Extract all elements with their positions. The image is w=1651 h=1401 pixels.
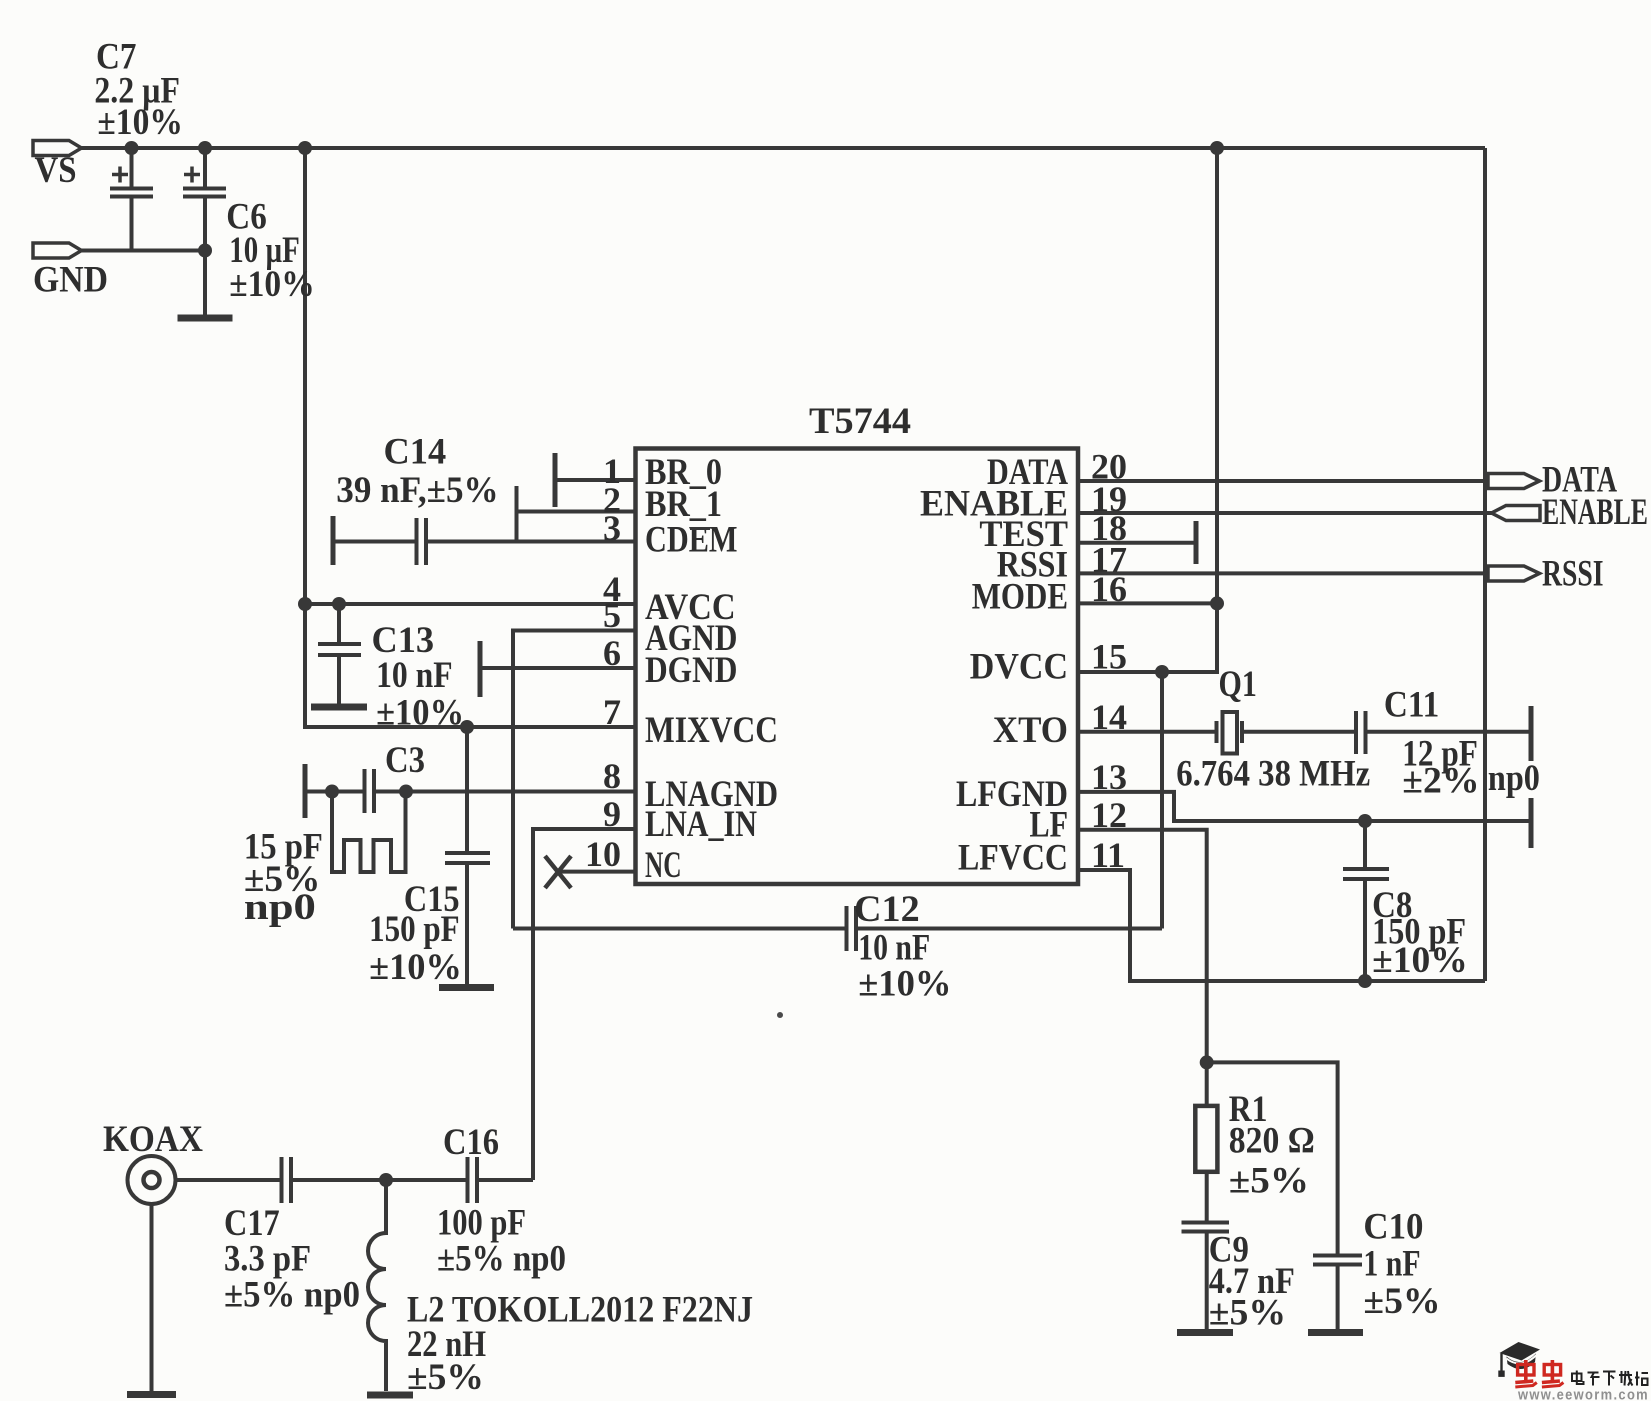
svg-text:39 nF,±5%: 39 nF,±5%	[336, 470, 498, 511]
terminal bar LFGND right	[1529, 798, 1534, 848]
capacitor C14 (39nF) on CDEM pin 3	[333, 540, 416, 544]
svg-text:RSSI: RSSI	[1542, 554, 1604, 595]
junction dot C3 left node	[325, 785, 339, 799]
wire C3 left	[305, 790, 364, 794]
wire BR_1 pin 2	[517, 510, 637, 514]
wire LFGND pin 13	[1078, 792, 1531, 821]
svg-text:C14: C14	[384, 432, 447, 473]
junction dot AVCC trunk	[298, 597, 312, 611]
wire DATA pin 20	[1078, 479, 1488, 483]
svg-text:ENABLE: ENABLE	[1542, 492, 1648, 533]
svg-text:15: 15	[1091, 637, 1127, 677]
svg-text:T5744: T5744	[809, 401, 911, 442]
svg-text:C16: C16	[443, 1122, 499, 1163]
ground bar C6	[178, 315, 233, 322]
svg-text:DVCC: DVCC	[970, 647, 1068, 688]
wire VS supply rail (top)	[82, 146, 1486, 150]
svg-text:11: 11	[1091, 835, 1125, 875]
svg-text:www.eeworm.com: www.eeworm.com	[1517, 1388, 1649, 1401]
junction dot C6 top	[198, 141, 212, 155]
capacitor C12 (10nF)	[845, 906, 849, 951]
wire R1 to C9	[1205, 1172, 1209, 1222]
wire right rail	[1483, 148, 1487, 981]
svg-text:820 Ω: 820 Ω	[1229, 1121, 1315, 1162]
capacitor C15 (150pF)	[465, 727, 469, 852]
ground bar C13	[311, 704, 367, 711]
wire DVCC pin 15 riser to rail	[1078, 148, 1217, 672]
capacitor C16 (100pF)	[466, 1157, 470, 1203]
junction dot DVCC branch	[1155, 665, 1169, 679]
IC U1 T5744 body	[636, 449, 1079, 885]
svg-text:±2%: ±2%	[1402, 761, 1479, 802]
ground bar C10	[1308, 1329, 1363, 1336]
junction dot C3 right node	[399, 785, 413, 799]
terminal bar DGND	[478, 641, 483, 697]
capacitor C13 (10nF)	[337, 604, 341, 644]
ink speck artifact	[777, 1012, 783, 1018]
svg-text:±5%: ±5%	[1229, 1161, 1309, 1202]
junction dot C13 top	[332, 597, 346, 611]
svg-text:Q1: Q1	[1219, 664, 1257, 705]
svg-text:LFVCC: LFVCC	[958, 838, 1068, 879]
svg-text:np0: np0	[1488, 758, 1540, 799]
junction dot C6/GND	[198, 244, 212, 258]
junction dot rail/MODE riser	[1210, 141, 1224, 155]
svg-text:3: 3	[603, 508, 621, 548]
svg-text:C3: C3	[385, 740, 425, 781]
terminal bar C3 left	[303, 764, 308, 818]
svg-text:XTO: XTO	[993, 710, 1068, 751]
wire LNAGND pin 8	[375, 790, 636, 794]
terminal bar BR_0	[553, 453, 558, 507]
svg-text:NC: NC	[645, 845, 682, 886]
wire LF pin 12 down to R1	[1078, 830, 1207, 1106]
watermark graduation cap	[1498, 1342, 1540, 1377]
terminal ENABLE	[1492, 506, 1541, 521]
terminal bar TEST	[1194, 521, 1199, 564]
svg-text:±5% np0: ±5% np0	[437, 1239, 566, 1280]
ground bar C9	[1177, 1329, 1233, 1336]
capacitor C3 (15pF)	[363, 769, 367, 813]
terminal RSSI	[1488, 566, 1540, 581]
svg-text:±10%: ±10%	[1372, 940, 1468, 981]
wire DVCC branch down to C12	[1160, 672, 1164, 929]
svg-text:10 nF: 10 nF	[858, 928, 930, 969]
svg-text:7: 7	[603, 692, 621, 732]
inductor L1 (square-loop) under C3	[332, 792, 406, 873]
wire AVCC trunk to MIXVCC pin 7	[305, 148, 636, 727]
svg-text:±10%: ±10%	[369, 947, 462, 988]
wire AVCC pin 4	[305, 602, 636, 606]
no-connect X on pin 10	[545, 856, 571, 888]
watermark site name characters	[1572, 1371, 1648, 1386]
wire MODE pin 16	[1078, 601, 1217, 605]
svg-text:±5% np0: ±5% np0	[224, 1275, 360, 1316]
svg-text:±5%: ±5%	[407, 1357, 484, 1398]
svg-text:±5%: ±5%	[1363, 1281, 1440, 1322]
svg-text:MODE: MODE	[972, 577, 1068, 618]
svg-text:16: 16	[1091, 569, 1127, 609]
svg-text:9: 9	[603, 794, 621, 834]
svg-text:10: 10	[585, 834, 621, 874]
svg-text:±10%: ±10%	[376, 693, 464, 734]
svg-text:C10: C10	[1363, 1207, 1423, 1248]
terminal DATA	[1488, 474, 1540, 489]
wire R1 top to C10 branch	[1207, 1062, 1338, 1256]
svg-text:CDEM: CDEM	[645, 520, 738, 561]
capacitor C11 (12pF)	[1354, 711, 1358, 754]
wire C17 to C16	[292, 1178, 468, 1182]
svg-text:±10%: ±10%	[97, 102, 182, 143]
svg-text:MIXVCC: MIXVCC	[645, 710, 778, 751]
svg-text:DGND: DGND	[645, 650, 738, 691]
svg-text:±10%: ±10%	[858, 964, 951, 1005]
wire BR_1 riser to C14 node	[515, 486, 519, 542]
wire C12 row left	[513, 927, 846, 931]
svg-text:GND: GND	[33, 260, 108, 301]
wire LNA_IN pin 9 down to input network	[533, 829, 636, 1180]
wire C16 to pin 9 riser	[478, 1178, 534, 1182]
svg-text:6: 6	[603, 633, 621, 673]
connector KOAX	[128, 1156, 176, 1204]
wire XTO pin 14	[1078, 730, 1215, 734]
junction dot C8 top	[1358, 814, 1372, 828]
svg-text:150 pF: 150 pF	[369, 909, 460, 950]
wire TEST pin 18	[1078, 541, 1196, 545]
wire BR_0 pin 1	[555, 478, 636, 482]
svg-text:10 nF: 10 nF	[376, 655, 453, 696]
wire C12 row right to DVCC branch	[856, 927, 1162, 931]
wire KOAX to C17	[176, 1178, 282, 1182]
svg-text:3.3 pF: 3.3 pF	[224, 1239, 311, 1280]
wire AGND pin 5 down to C12 row	[513, 631, 636, 929]
junction dot trunk top	[298, 141, 312, 155]
svg-text:LNA_IN: LNA_IN	[645, 804, 757, 845]
svg-text:8: 8	[603, 756, 621, 796]
wire CDEM pin 3	[427, 540, 637, 544]
svg-text:±10%: ±10%	[229, 264, 314, 305]
wire DGND pin 6	[480, 666, 636, 670]
junction dot C15/MIXVCC	[460, 720, 474, 734]
wire LFVCC pin 11 to rail bottom	[1078, 870, 1485, 981]
svg-text:±5%: ±5%	[1209, 1293, 1286, 1334]
terminal VS	[33, 141, 82, 156]
terminal bar C14 left	[331, 516, 336, 565]
svg-text:VS: VS	[35, 150, 77, 191]
wire NC pin 10 stub	[558, 870, 636, 874]
capacitor C10 (1nF)	[1313, 1254, 1362, 1258]
svg-text:14: 14	[1091, 697, 1127, 737]
svg-text:np0: np0	[244, 887, 316, 928]
capacitor C7 (2.2uF polarized)	[130, 148, 134, 189]
wire C11 right	[1366, 730, 1531, 734]
junction dot C8 bottom	[1358, 974, 1372, 988]
capacitor C17 (3.3pF)	[280, 1157, 284, 1203]
ground bar C15	[439, 984, 494, 991]
terminal bar C11 right	[1529, 706, 1534, 761]
resistor R1 (820 ohm)	[1195, 1106, 1217, 1172]
svg-text:13: 13	[1091, 757, 1127, 797]
terminal GND	[33, 243, 82, 258]
svg-text:5: 5	[603, 595, 621, 635]
inductor L2 (22nH)	[368, 1180, 386, 1391]
capacitor C6 (10uF polarized)	[203, 148, 207, 189]
svg-text:12: 12	[1091, 795, 1127, 835]
svg-text:6.764 38 MHz: 6.764 38 MHz	[1176, 754, 1370, 795]
junction dot C7 top	[125, 141, 139, 155]
junction dot antenna node	[379, 1173, 393, 1187]
svg-text:100 pF: 100 pF	[437, 1203, 526, 1244]
wire XTO to C11	[1244, 730, 1356, 734]
wire GND	[82, 249, 206, 253]
wire KOAX shield down	[150, 1204, 154, 1391]
overline on CDEM E	[690, 527, 710, 530]
capacitor C8 (150pF)	[1363, 821, 1367, 868]
svg-text:KOAX: KOAX	[103, 1119, 203, 1160]
watermark chongchong red characters	[1515, 1360, 1563, 1387]
wire ENABLE pin 19	[1078, 511, 1494, 515]
capacitor C9 (4.7nF)	[1182, 1221, 1230, 1225]
junction dot MODE	[1210, 596, 1224, 610]
wire RSSI pin 17	[1078, 571, 1488, 575]
svg-text:C11: C11	[1384, 685, 1439, 726]
svg-text:C12: C12	[854, 889, 920, 930]
junction dot R1 top	[1200, 1055, 1214, 1069]
ground bar L2	[367, 1392, 413, 1399]
svg-text:1 nF: 1 nF	[1363, 1244, 1420, 1285]
crystal Q1 6.76438 MHz	[1215, 721, 1219, 743]
ground bar KOAX	[127, 1391, 176, 1398]
